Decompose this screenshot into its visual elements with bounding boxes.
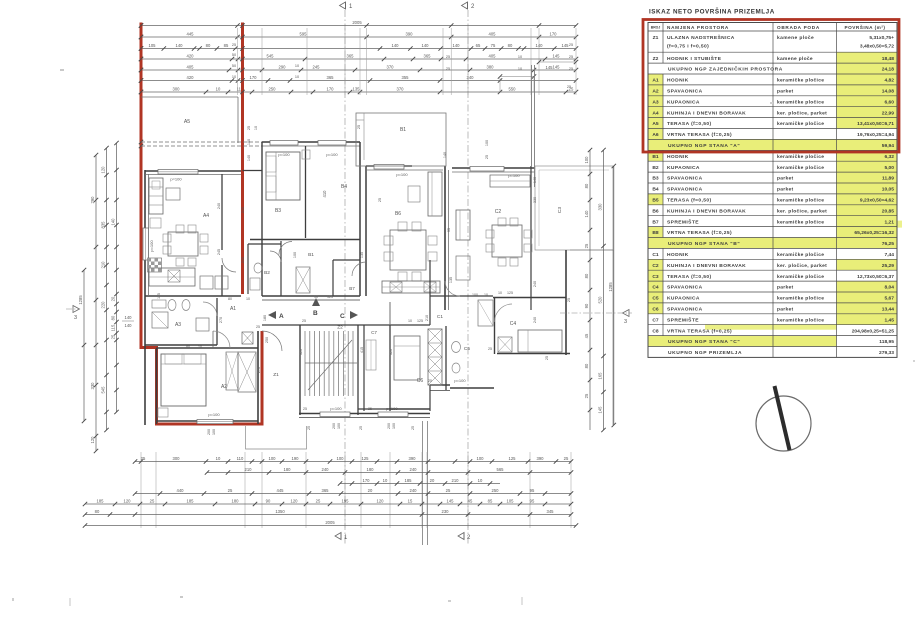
C2 table	[456, 256, 470, 280]
top dimension row 4	[139, 64, 578, 72]
wall B bottom corridor	[262, 295, 360, 297]
entry walk path lines	[422, 421, 424, 545]
sofa B6	[428, 172, 442, 216]
svg-text:140: 140	[584, 210, 589, 218]
wall stair/C7 bottom	[358, 408, 390, 410]
svg-text:keramičke pločice: keramičke pločice	[777, 99, 824, 105]
bottom guide verticals	[140, 452, 142, 528]
svg-text:25: 25	[150, 498, 155, 503]
highlighter smudge above C7 value	[705, 324, 837, 330]
wall B6/C2 divider	[444, 166, 446, 310]
svg-text:HODNIK: HODNIK	[667, 154, 689, 160]
svg-text:C7: C7	[652, 317, 659, 323]
C5 sink	[452, 342, 461, 353]
svg-text:keramičke pločice: keramičke pločice	[777, 274, 824, 280]
svg-text:80: 80	[584, 273, 589, 278]
step wall A to B	[243, 170, 263, 172]
svg-text:(f=0,75 i f=0,50): (f=0,75 i f=0,50)	[667, 43, 709, 49]
svg-text:200: 200	[207, 429, 211, 435]
svg-text:B1: B1	[652, 154, 659, 160]
svg-text:22,99: 22,99	[882, 110, 895, 116]
svg-text:420: 420	[187, 53, 195, 58]
svg-text:B4: B4	[652, 187, 659, 193]
svg-text:100: 100	[472, 293, 478, 297]
svg-text:65,26x0,25=16,32: 65,26x0,25=16,32	[854, 230, 894, 236]
svg-text:270: 270	[219, 317, 223, 323]
svg-text:KUHINJA I DNEVNI BORAVAK: KUHINJA I DNEVNI BORAVAK	[667, 110, 746, 116]
svg-text:410: 410	[322, 190, 327, 198]
apartment B walls	[262, 141, 360, 143]
svg-text:45: 45	[584, 333, 589, 338]
C2 couch	[456, 210, 470, 240]
table grid	[648, 23, 897, 358]
svg-text:125: 125	[507, 291, 513, 295]
svg-text:kamene ploče: kamene ploče	[777, 56, 813, 62]
svg-text:UKUPNO NGP STANA "A": UKUPNO NGP STANA "A"	[668, 143, 740, 149]
svg-text:210: 210	[101, 261, 106, 269]
svg-text:ISKAZ NETO POVRŠINA PRIZEMLJA: ISKAZ NETO POVRŠINA PRIZEMLJA	[649, 7, 775, 16]
svg-text:KUHINJA I DNEVNI BORAVAK: KUHINJA I DNEVNI BORAVAK	[667, 263, 746, 269]
left dim 330/120	[90, 153, 98, 453]
door arc C1	[445, 281, 460, 296]
svg-text:25: 25	[584, 393, 589, 398]
C4 bedroom walls	[493, 297, 566, 299]
svg-text:120: 120	[90, 436, 95, 444]
faint scan ticks bottom	[69, 598, 71, 606]
svg-text:C6: C6	[652, 307, 659, 313]
A3 bidet	[182, 300, 190, 311]
stair rail	[305, 362, 357, 364]
svg-text:A1: A1	[652, 78, 659, 84]
wall B3 left	[261, 142, 263, 296]
svg-text:6,32: 6,32	[884, 154, 894, 160]
svg-text:SPAVAONICA: SPAVAONICA	[667, 307, 703, 313]
svg-text:405: 405	[187, 64, 195, 69]
closet B1 hall hatch	[296, 267, 310, 293]
right dim 330/520	[598, 148, 606, 432]
svg-text:10: 10	[198, 345, 202, 349]
svg-text:300: 300	[173, 456, 181, 461]
closet A1	[226, 352, 238, 390]
svg-text:C8: C8	[652, 328, 659, 334]
door arc A1-A2	[213, 331, 230, 348]
wall B3/B4 divider	[305, 146, 307, 238]
top dimension row 1	[139, 31, 578, 39]
svg-text:25: 25	[564, 456, 569, 461]
C6 bedroom walls	[389, 325, 391, 411]
svg-text:keramičke pločice: keramičke pločice	[777, 296, 824, 302]
svg-text:1350: 1350	[275, 509, 285, 514]
svg-text:keramičke pločice: keramičke pločice	[777, 219, 824, 225]
svg-text:80: 80	[508, 43, 513, 48]
C5 bathroom walls	[445, 326, 447, 390]
small closet X between A1 and A2	[242, 332, 253, 344]
svg-text:B7: B7	[652, 219, 659, 225]
table B6 small	[408, 186, 420, 202]
wall A3 right	[216, 298, 218, 345]
svg-text:90: 90	[266, 498, 271, 503]
svg-text:UKUPNO NGP STANA "C": UKUPNO NGP STANA "C"	[668, 339, 740, 345]
svg-text:A2: A2	[652, 89, 659, 95]
svg-text:240: 240	[241, 257, 245, 263]
svg-text:245: 245	[313, 64, 321, 69]
svg-text:80: 80	[584, 363, 589, 368]
svg-text:p=100: p=100	[454, 378, 466, 383]
door arc B1 hall to B3	[279, 242, 292, 255]
svg-text:95: 95	[530, 498, 535, 503]
window C2 top	[470, 167, 504, 172]
svg-text:25: 25	[316, 498, 321, 503]
svg-text:ker. pločice, parket: ker. pločice, parket	[777, 263, 827, 269]
svg-text:10: 10	[518, 55, 522, 59]
C7 storage walls	[363, 325, 365, 411]
svg-text:120: 120	[377, 498, 385, 503]
svg-text:25: 25	[411, 426, 415, 430]
svg-text:195: 195	[342, 498, 350, 503]
svg-text:25: 25	[111, 334, 116, 339]
svg-text:80: 80	[186, 345, 190, 349]
apartment A outer walls	[144, 170, 146, 425]
svg-text:B8: B8	[652, 230, 659, 236]
table area	[648, 23, 902, 358]
A3 bathroom fixtures	[152, 300, 166, 308]
svg-text:210: 210	[245, 467, 253, 472]
entrance arrow B	[312, 298, 320, 317]
svg-text:B3: B3	[275, 208, 281, 214]
svg-text:204,98x0,25=51,25: 204,98x0,25=51,25	[852, 328, 895, 334]
svg-text:185: 185	[187, 498, 195, 503]
svg-text:25: 25	[368, 407, 372, 411]
bottom wall of middle section with windows	[299, 413, 430, 415]
C1 hall walls	[430, 295, 493, 297]
svg-text:C2: C2	[652, 263, 659, 269]
svg-text:19,76x0,25=4,94: 19,76x0,25=4,94	[857, 132, 894, 138]
svg-text:VRTNA TERASA (f=0,25): VRTNA TERASA (f=0,25)	[667, 230, 732, 236]
svg-text:300: 300	[173, 86, 181, 91]
section marker 3 left	[66, 306, 80, 322]
svg-text:20: 20	[430, 478, 435, 483]
svg-text:370: 370	[387, 64, 395, 69]
bed B3	[266, 152, 300, 200]
entrance arrow C	[340, 311, 358, 320]
svg-text:1,21: 1,21	[884, 219, 894, 225]
svg-text:KUPAONICA: KUPAONICA	[667, 296, 700, 302]
svg-text:p=100: p=100	[508, 173, 520, 178]
svg-text:100: 100	[247, 139, 251, 145]
svg-text:445: 445	[187, 31, 195, 36]
svg-text:C2: C2	[495, 209, 502, 215]
svg-text:105: 105	[149, 43, 157, 48]
svg-text:290: 290	[90, 196, 95, 204]
svg-text:A3: A3	[652, 99, 659, 105]
svg-text:125: 125	[362, 456, 370, 461]
wall A4 bottom / A3 top	[145, 295, 241, 297]
wall B3/B1 horizontal	[250, 239, 360, 241]
svg-text:25: 25	[545, 356, 549, 360]
coffee table A4	[166, 188, 180, 200]
svg-text:80: 80	[584, 183, 589, 188]
svg-text:240: 240	[410, 467, 418, 472]
svg-text:250: 250	[265, 337, 269, 343]
svg-text:8,04: 8,04	[884, 285, 894, 291]
scan artifact specks	[60, 69, 64, 71]
svg-text:parket: parket	[777, 307, 794, 313]
svg-text:SPAVAONICA: SPAVAONICA	[667, 89, 703, 95]
svg-text:59,94: 59,94	[882, 143, 895, 149]
svg-text:85: 85	[224, 43, 229, 48]
svg-text:140: 140	[392, 43, 400, 48]
svg-text:C5: C5	[652, 296, 659, 302]
svg-text:A4: A4	[652, 110, 659, 116]
svg-text:100: 100	[584, 156, 589, 164]
svg-text:80: 80	[206, 43, 211, 48]
svg-text:BROJ: BROJ	[651, 26, 661, 30]
compass circle	[756, 396, 811, 451]
sofa A4	[149, 178, 163, 214]
svg-text:p=100: p=100	[278, 152, 290, 157]
svg-text:190: 190	[292, 456, 300, 461]
svg-text:445: 445	[277, 488, 285, 493]
section marker 2 bottom	[458, 533, 471, 542]
window B6 top	[374, 165, 404, 170]
svg-text:95: 95	[447, 228, 451, 232]
svg-text:115: 115	[111, 324, 116, 331]
svg-text:25: 25	[302, 319, 306, 323]
svg-text:p=100: p=100	[396, 172, 408, 177]
svg-text:100: 100	[477, 456, 485, 461]
svg-text:390: 390	[409, 456, 417, 461]
A3 toilet	[168, 300, 176, 311]
svg-text:25: 25	[488, 347, 492, 351]
svg-text:330: 330	[598, 203, 603, 211]
svg-text:25: 25	[428, 379, 432, 383]
entrance arrow A	[268, 311, 284, 320]
door arc A1-A3	[203, 302, 217, 316]
door arc Z1 porch	[262, 331, 282, 351]
svg-text:180: 180	[367, 467, 375, 472]
svg-text:135: 135	[360, 252, 364, 258]
svg-text:25: 25	[446, 67, 450, 71]
svg-text:115: 115	[157, 293, 161, 299]
svg-text:KUPAONICA: KUPAONICA	[667, 99, 700, 105]
C5 toilet	[452, 363, 460, 373]
svg-text:B7: B7	[349, 286, 355, 291]
svg-text:B4: B4	[341, 184, 347, 190]
svg-text:145: 145	[553, 64, 561, 69]
nightstand B3	[302, 150, 310, 159]
svg-text:50: 50	[232, 53, 236, 57]
B1 hall / B2 bath walls	[248, 243, 281, 245]
svg-text:125: 125	[509, 456, 517, 461]
right dim small stack	[584, 148, 592, 430]
red boundary line right (apartment A / B separation)	[241, 23, 244, 295]
svg-text:14,08: 14,08	[882, 89, 895, 95]
svg-text:7,44: 7,44	[884, 252, 894, 258]
section line 2 vertical dash-dot	[467, 10, 469, 545]
svg-text:180: 180	[232, 498, 240, 503]
svg-text:200: 200	[332, 423, 336, 429]
C2 dining table	[492, 225, 522, 257]
svg-text:10: 10	[484, 293, 488, 297]
svg-text:p=100: p=100	[149, 240, 154, 252]
fridge A4	[200, 276, 213, 289]
svg-text:140: 140	[125, 323, 133, 328]
svg-text:25: 25	[303, 407, 307, 411]
svg-text:365: 365	[347, 53, 355, 58]
svg-text:POVRŠINA (m²): POVRŠINA (m²)	[845, 23, 886, 30]
svg-text:SPAVAONICA: SPAVAONICA	[667, 285, 703, 291]
svg-text:110: 110	[237, 456, 244, 461]
svg-text:25: 25	[446, 55, 450, 59]
svg-text:250: 250	[269, 86, 277, 91]
svg-text:390: 390	[406, 31, 414, 36]
svg-text:B6: B6	[395, 211, 401, 217]
svg-text:405: 405	[489, 31, 497, 36]
svg-text:565: 565	[497, 467, 505, 472]
svg-text:Z1: Z1	[273, 372, 279, 378]
svg-text:B: B	[313, 310, 318, 317]
bottom dimension row 3	[338, 478, 500, 486]
svg-text:270: 270	[257, 367, 261, 373]
svg-text:200: 200	[387, 423, 391, 429]
left dim small stack	[111, 141, 119, 414]
svg-text:VRTNA TERASA (f=0,25): VRTNA TERASA (f=0,25)	[667, 328, 732, 334]
svg-text:140: 140	[422, 43, 430, 48]
svg-text:25: 25	[569, 55, 573, 59]
svg-text:320: 320	[299, 349, 303, 355]
svg-text:185: 185	[97, 498, 105, 503]
A3 shower box	[152, 312, 168, 328]
svg-text:10: 10	[254, 126, 258, 130]
svg-text:p=100: p=100	[330, 406, 342, 411]
svg-text:550: 550	[509, 86, 517, 91]
svg-text:Z2: Z2	[653, 56, 659, 62]
svg-text:25: 25	[141, 456, 146, 461]
svg-text:10,05: 10,05	[882, 187, 895, 193]
svg-text:105: 105	[507, 498, 515, 503]
window B3 top	[270, 141, 298, 146]
door arc C4	[495, 304, 513, 322]
svg-text:UKUPNO NGP PRIZEMLJA: UKUPNO NGP PRIZEMLJA	[668, 350, 742, 356]
svg-text:20: 20	[368, 488, 373, 493]
svg-text:245: 245	[217, 249, 221, 255]
svg-text:25: 25	[584, 243, 589, 248]
svg-text:keramičke pločice: keramičke pločice	[777, 165, 824, 171]
svg-text:A6: A6	[652, 132, 659, 138]
bottom dimension row 6	[83, 509, 573, 517]
svg-text:170: 170	[250, 75, 258, 80]
hatch box B6 right	[424, 282, 436, 292]
C3 terrace outline	[535, 166, 613, 250]
svg-text:95: 95	[530, 488, 535, 493]
svg-text:145: 145	[598, 406, 603, 414]
svg-text:9,23x0,50=4,62: 9,23x0,50=4,62	[860, 198, 894, 204]
svg-text:1,45: 1,45	[884, 317, 894, 323]
svg-text:10: 10	[383, 478, 388, 483]
svg-text:parket: parket	[777, 187, 794, 193]
dining table A4	[168, 232, 198, 256]
svg-text:3: 3	[624, 319, 627, 325]
bottom dimension row 4	[133, 488, 573, 496]
svg-text:10: 10	[295, 64, 299, 68]
svg-text:420: 420	[187, 75, 195, 80]
svg-text:25: 25	[357, 125, 361, 129]
svg-text:180: 180	[263, 315, 267, 321]
svg-text:355: 355	[402, 75, 410, 80]
svg-text:140: 140	[125, 315, 133, 320]
kitchen checker tile corner A4	[148, 258, 162, 272]
svg-text:75: 75	[491, 43, 496, 48]
svg-text:Z1: Z1	[653, 35, 659, 41]
svg-text:100: 100	[269, 456, 277, 461]
svg-text:1285: 1285	[608, 282, 613, 292]
svg-text:25: 25	[567, 85, 571, 89]
svg-text:140: 140	[111, 218, 116, 226]
svg-text:parket: parket	[777, 176, 794, 182]
svg-text:180: 180	[284, 467, 292, 472]
svg-text:B2: B2	[652, 165, 659, 171]
top dimension row 2005	[139, 20, 578, 28]
svg-text:240: 240	[322, 467, 330, 472]
terrace A5 dashed boundary	[141, 141, 262, 143]
svg-text:A3: A3	[175, 322, 181, 328]
svg-text:120: 120	[291, 498, 299, 503]
svg-text:120: 120	[101, 166, 106, 174]
svg-text:25: 25	[378, 198, 382, 202]
svg-text:NAMJENA PROSTORA: NAMJENA PROSTORA	[667, 25, 729, 30]
armchair A4	[150, 218, 161, 228]
svg-text:145: 145	[553, 53, 561, 58]
svg-text:370: 370	[397, 86, 405, 91]
svg-text:p=100: p=100	[326, 152, 338, 157]
svg-text:240: 240	[217, 203, 221, 209]
bottom patio outline below A	[246, 426, 307, 449]
svg-text:140: 140	[247, 155, 251, 161]
stair diagonal cut	[308, 340, 352, 390]
svg-text:25: 25	[569, 43, 573, 47]
svg-text:10: 10	[216, 456, 221, 461]
sink hatch B6	[390, 282, 402, 292]
svg-text:835: 835	[101, 221, 106, 229]
svg-text:125: 125	[417, 319, 423, 323]
svg-text:HODNIK: HODNIK	[667, 252, 689, 258]
tick crossings over red lines	[139, 23, 143, 27]
right dim 1285	[608, 164, 616, 427]
svg-text:25: 25	[359, 426, 363, 430]
svg-text:parket: parket	[777, 285, 794, 291]
svg-text:C1: C1	[652, 252, 659, 258]
svg-text:TERASA (f=0,50): TERASA (f=0,50)	[667, 274, 712, 280]
svg-text:50: 50	[232, 64, 236, 68]
svg-text:B2: B2	[264, 270, 270, 276]
svg-text:25: 25	[247, 126, 251, 130]
svg-text:545: 545	[101, 386, 106, 394]
svg-text:595: 595	[300, 31, 308, 36]
svg-text:B6: B6	[652, 208, 659, 214]
svg-text:10: 10	[232, 75, 236, 79]
svg-text:3: 3	[74, 315, 77, 321]
svg-text:C4: C4	[510, 321, 517, 327]
stair treads Z2	[305, 331, 353, 396]
svg-text:210: 210	[452, 478, 460, 483]
svg-text:A1: A1	[230, 306, 236, 312]
svg-text:10: 10	[246, 297, 250, 301]
svg-text:UKUPNO NGP ZAJEDNIČKIH PROSTOR: UKUPNO NGP ZAJEDNIČKIH PROSTORA	[668, 66, 783, 73]
wall A3 bottom	[145, 344, 217, 346]
svg-text:65: 65	[476, 43, 481, 48]
svg-text:keramičke pločice: keramičke pločice	[777, 198, 824, 204]
door arc B2	[270, 251, 281, 262]
